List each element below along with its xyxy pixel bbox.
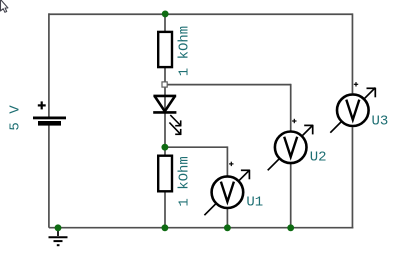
node: ground junction: [55, 224, 62, 231]
wire: main middle vertical branch (R1, LED, R2 leads): [164, 13, 166, 228]
ground: [49, 228, 68, 246]
voltmeter U3: [330, 82, 376, 133]
svg-text:5 V: 5 V: [7, 105, 23, 131]
wire: down to U2 + terminal: [290, 84, 292, 131]
node: top junction: [162, 10, 169, 17]
wire: LED cathode node to U1 horizontal: [165, 146, 227, 148]
resistor R2 1 kOhm: [158, 156, 172, 192]
wire: right vertical from top net to U3: [351, 13, 353, 93]
wire: U3 bottom to bottom net: [351, 127, 353, 228]
LED D1: [153, 96, 181, 135]
wire: top horizontal net: [49, 13, 353, 15]
wire: left vertical to battery +: [48, 13, 50, 117]
wire: bottom horizontal net: [49, 227, 353, 229]
svg-text:U1: U1: [246, 195, 263, 211]
resistor R1 1 kOhm: [158, 32, 172, 67]
svg-text:1 kOhm: 1 kOhm: [177, 26, 193, 76]
wire: battery - down to bottom net: [48, 125, 50, 227]
label: 1 kOhm (R2 value): [177, 156, 193, 206]
wire: down to U1 + terminal: [226, 146, 228, 175]
voltmeter U2: [268, 119, 314, 171]
label: 5 V (battery value): [7, 105, 23, 131]
wire: U2 bottom to bottom net: [290, 164, 292, 229]
node: U2 bottom junction: [287, 224, 294, 231]
label: U3: [372, 114, 389, 130]
pin square: LED anode connection point: [162, 82, 167, 87]
node: R2 bottom junction: [161, 224, 168, 231]
label: U1: [246, 195, 263, 211]
node: LED cathode junction: [161, 144, 168, 151]
mouse cursor: [1, 0, 8, 12]
svg-text:U2: U2: [310, 150, 327, 166]
node: U1 bottom junction: [224, 224, 231, 231]
voltmeter U1: [204, 162, 250, 216]
battery V1 5V source: [33, 101, 66, 125]
wire: LED anode node to U2 horizontal: [165, 84, 291, 86]
svg-text:1 kOhm: 1 kOhm: [177, 156, 193, 206]
wire: U1 bottom to bottom net: [226, 209, 228, 229]
svg-text:U3: U3: [372, 114, 389, 130]
label: U2: [310, 150, 327, 166]
label: 1 kOhm (R1 value): [177, 26, 193, 76]
